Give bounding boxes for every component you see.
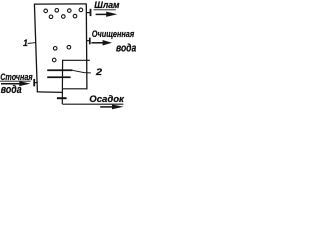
tank body 1 : top wall (35, 3, 87, 5)
sludge outlet flange (90, 9, 92, 16)
underline under Шлам (94, 9, 116, 11)
sludge outlet nozzle stub (87, 12, 90, 14)
tank body 1 : bottom left wall (37, 91, 63, 94)
svg-text:Шлам: Шлам (94, 0, 120, 10)
svg-text:1: 1 (23, 38, 28, 48)
electrode plate upper 2 (47, 69, 72, 71)
sediment pipe (62, 103, 123, 105)
arrow Осадок (100, 106, 113, 108)
arrow Шлам (96, 13, 108, 15)
chamber 2 : top line (63, 59, 90, 61)
bubble b9 (67, 45, 71, 49)
bubble b8 (53, 47, 57, 51)
tank body 1 : bottom right wall (62, 88, 87, 90)
bubble b6 (62, 15, 66, 19)
chamber / drain vertical (61, 60, 63, 104)
bubble b1 (44, 9, 48, 13)
tank body 1 : left wall (34, 4, 37, 93)
inlet stub left (35, 82, 37, 84)
electrode plate lower 2 (47, 76, 70, 78)
clean water outlet flange (89, 38, 91, 45)
bubble b10 (52, 58, 56, 62)
bubble b5 (49, 15, 53, 19)
bubble b3 (68, 9, 72, 13)
bubble b7 (73, 14, 77, 18)
bottom drain flange (57, 97, 67, 99)
svg-text:2: 2 (95, 67, 103, 78)
arrow Сточная вода (1, 83, 21, 85)
svg-text:вода: вода (116, 43, 136, 55)
svg-text:Очищенная: Очищенная (92, 29, 135, 39)
clean water outlet stub (87, 40, 89, 42)
svg-text:вода: вода (1, 84, 22, 96)
leader line to label 2 (72, 70, 90, 73)
svg-text:Осадок: Осадок (89, 94, 124, 104)
tank body 1 : right wall (85, 4, 88, 90)
underline under Сточная (0, 80, 31, 82)
inlet flange left (33, 79, 35, 87)
bubble b2 (55, 9, 59, 13)
bubble b4 (79, 8, 83, 12)
leader line to label 1 (28, 42, 36, 45)
arrow Очищенная вода (91, 42, 103, 44)
